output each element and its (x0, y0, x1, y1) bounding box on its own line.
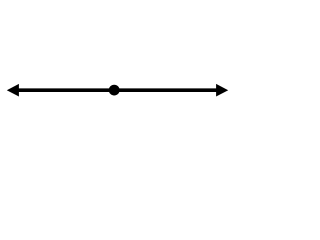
wire (12, 88, 223, 92)
left arrowhead (7, 84, 19, 97)
node A (109, 85, 120, 96)
right arrowhead (216, 84, 228, 97)
